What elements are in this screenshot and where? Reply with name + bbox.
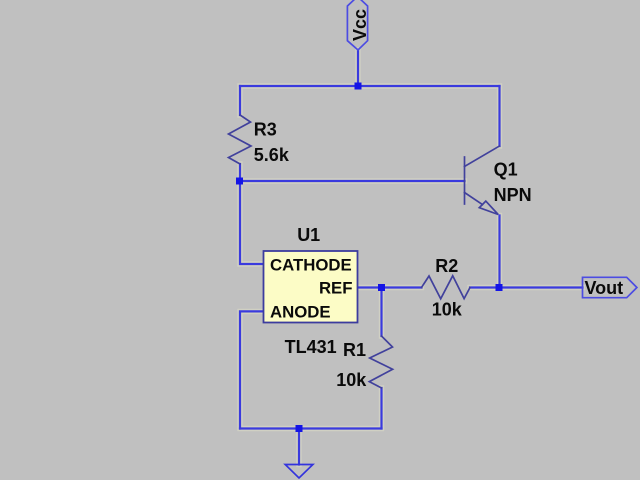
svg-text:CATHODE: CATHODE — [270, 256, 352, 275]
resistor R1 — [369, 336, 392, 388]
resistor R2 — [422, 276, 471, 299]
wire REF to R2 — [358, 286, 422, 288]
svg-text:NPN: NPN — [494, 185, 532, 205]
svg-text:10k: 10k — [432, 300, 463, 320]
wire base of Q1 — [240, 180, 465, 182]
svg-text:Vout: Vout — [585, 278, 624, 298]
svg-text:ANODE: ANODE — [270, 303, 331, 322]
op-amp U1 TL431 body — [264, 251, 358, 323]
transistor Q1 — [465, 146, 500, 215]
resistor R3 — [229, 115, 252, 164]
svg-text:5.6k: 5.6k — [254, 145, 290, 165]
wire anode down left — [240, 311, 264, 428]
junction node REF/R1 — [378, 284, 385, 291]
svg-text:R2: R2 — [435, 256, 458, 276]
junction node Vcc rail — [355, 83, 362, 90]
wire R1 top lead — [380, 288, 382, 337]
wire R1 bottom lead — [380, 388, 382, 429]
power flag Vcc — [347, 0, 367, 50]
svg-text:R3: R3 — [254, 120, 277, 140]
svg-text:U1: U1 — [297, 225, 320, 245]
junction node base/R3 — [236, 178, 243, 185]
wire top rail — [240, 85, 500, 87]
svg-text:10k: 10k — [336, 370, 367, 390]
wire R3 top lead — [239, 86, 241, 115]
svg-text:Q1: Q1 — [494, 160, 518, 180]
junction node Vout/emitter — [496, 284, 503, 291]
svg-text:Vcc: Vcc — [350, 9, 370, 41]
wire ground stub — [298, 429, 300, 465]
wire R3 bottom to cathode — [240, 164, 264, 264]
wire R2 to Vout — [470, 286, 583, 288]
junction node ground rail — [296, 425, 303, 432]
wire Vcc stub — [357, 50, 359, 86]
wire bottom rail — [240, 427, 382, 429]
wire emitter of Q1 — [498, 216, 500, 288]
svg-text:REF: REF — [319, 279, 353, 298]
wire collector of Q1 — [498, 86, 500, 146]
port flag Vout — [583, 277, 637, 297]
ground — [285, 465, 313, 479]
svg-text:R1: R1 — [343, 340, 366, 360]
halo glow under wires — [240, 50, 583, 465]
svg-text:TL431: TL431 — [285, 337, 337, 357]
